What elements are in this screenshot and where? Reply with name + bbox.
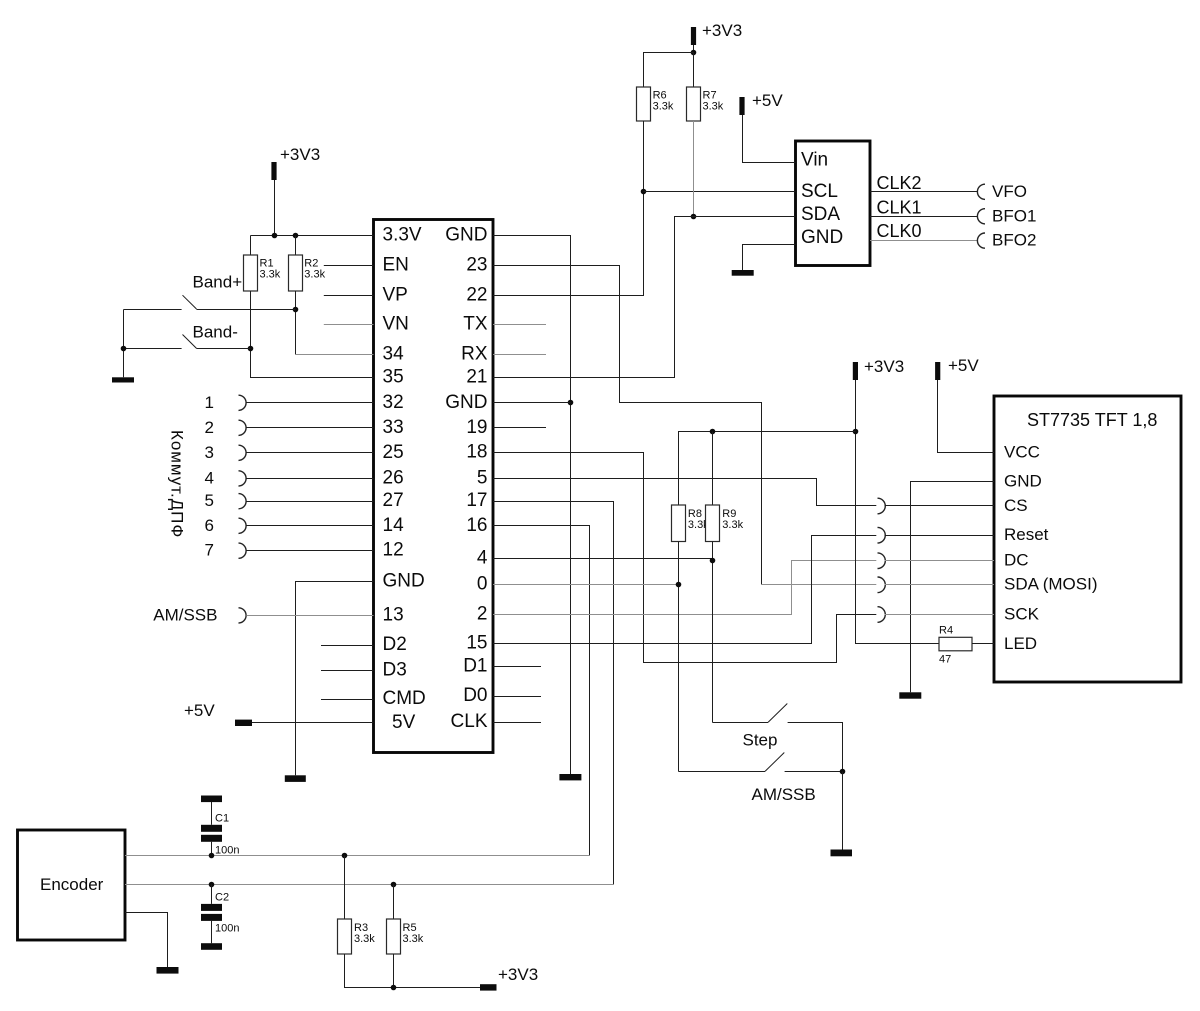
svg-text:+5V: +5V [752, 91, 783, 110]
switch AM/SSB left wire [679, 771, 766, 773]
TFT pin labels [1004, 443, 1098, 653]
svg-text:3.3k: 3.3k [304, 269, 325, 281]
wire R3 bottom to +3V3 [345, 954, 481, 988]
node junction R5/+3V3 line [391, 985, 397, 991]
svg-text:GND: GND [1004, 472, 1042, 491]
wire +3V3 drop to rail [274, 180, 276, 236]
wire TFT GND to ground [911, 482, 995, 693]
node junction common/Band- [121, 346, 127, 352]
ESP32 left pin labels [383, 224, 426, 733]
switch Band- left wire [124, 348, 182, 350]
svg-text:18: 18 [466, 442, 487, 463]
svg-text:VCC: VCC [1004, 443, 1040, 462]
svg-text:Step: Step [743, 731, 778, 750]
connector BFO1 socket [977, 209, 985, 224]
switch Band- blade [183, 335, 197, 349]
wire VN stub [324, 324, 374, 326]
wire R8 bottom to AM/SSB switch [678, 542, 680, 772]
svg-text:19: 19 [466, 417, 487, 438]
wire VP stub [324, 295, 374, 297]
wire +3V3 vertical to R4 [856, 380, 940, 644]
ESP32 right pin labels [445, 224, 488, 732]
svg-text:RX: RX [461, 344, 488, 365]
ground bar (Si5351) [732, 270, 754, 276]
node junction Step/AMSSB [840, 769, 846, 775]
wire R1 bottom to pin35 row [251, 291, 374, 378]
ground bar (C2 bottom) [201, 943, 222, 950]
wire EN stub [324, 265, 374, 267]
switch AM/SSB right wire [785, 771, 843, 773]
svg-text:13: 13 [383, 604, 404, 625]
svg-text:2: 2 [205, 418, 214, 437]
wire 19 stub [493, 427, 546, 429]
connector pin 6 socket [239, 518, 247, 533]
switch Step left wire [713, 722, 769, 724]
svg-text:BFO1: BFO1 [992, 206, 1036, 225]
svg-text:26: 26 [383, 467, 404, 488]
svg-text:D0: D0 [463, 685, 487, 706]
capacitor C1 top stem [211, 802, 213, 825]
svg-text:CLK1: CLK1 [877, 197, 922, 217]
power +5V (Si5351) bar [739, 97, 744, 115]
connector VFO socket [977, 184, 985, 199]
svg-text:LED: LED [1004, 634, 1037, 653]
svg-text:15: 15 [466, 633, 487, 654]
svg-text:GND: GND [445, 224, 487, 245]
Si5351 clock generator U2 body [796, 141, 871, 266]
svg-text:33: 33 [383, 417, 404, 438]
wire ESP right GND pin to rail [493, 402, 571, 404]
wire R1 top stub [250, 236, 252, 256]
svg-text:SCL: SCL [801, 181, 838, 202]
svg-text:SDA (MOSI): SDA (MOSI) [1004, 575, 1098, 594]
wire pin6 to ESP 14 [246, 525, 373, 527]
svg-text:17: 17 [466, 490, 487, 511]
svg-text:25: 25 [383, 442, 404, 463]
svg-text:32: 32 [383, 392, 404, 413]
power +3V3 (top left) bar [271, 162, 276, 180]
svg-text:BFO2: BFO2 [992, 231, 1036, 250]
wire R4 to TFT LED [972, 643, 994, 645]
svg-text:0: 0 [477, 573, 488, 594]
connector pin 7 socket [239, 543, 247, 558]
wire CLK0 to BFO2 [870, 240, 978, 242]
power +3V3 (pullups/TFT LED) bar [853, 362, 858, 380]
wire +5V to ESP 5V pin [252, 722, 374, 724]
node junction R9 top/rail [710, 429, 716, 435]
power +5V (ESP 5V pin) bar [235, 720, 252, 726]
wire R2 top stub [295, 236, 297, 256]
svg-text:D2: D2 [383, 634, 407, 655]
svg-text:3.3k: 3.3k [354, 933, 375, 945]
wire R7 bottom to SDA [693, 121, 695, 217]
wire CS socket to TFT [885, 505, 995, 507]
svg-text:SCK: SCK [1004, 604, 1040, 623]
resistor R8 [672, 505, 686, 542]
node junction R2 top/rail [293, 233, 299, 239]
capacitor C2 plate A [201, 904, 222, 911]
wire ESP right GND top to ground rail [493, 236, 571, 775]
ST7735 TFT display U3 body [994, 396, 1181, 682]
power +5V (TFT) bar [935, 362, 940, 380]
svg-text:DC: DC [1004, 551, 1029, 570]
connector pin 1 socket [239, 395, 247, 410]
wire D3 stub [321, 670, 374, 672]
wire DC socket to TFT [885, 560, 995, 562]
node junction R5/line2 [391, 882, 397, 888]
svg-text:35: 35 [383, 367, 404, 388]
ground bar (Band buttons) [112, 377, 134, 382]
Si5351 CLK output net labels [877, 173, 922, 241]
wire switches to ground [842, 772, 844, 851]
wire ESP pin16 to encoder line1 vertical [493, 526, 590, 856]
node junction Band+ / R2 line [293, 307, 299, 313]
wire TX stub [493, 324, 546, 326]
ground bar (encoder) [157, 967, 179, 974]
svg-text:Reset: Reset [1004, 525, 1049, 544]
wire R5 bottom stub [393, 954, 395, 988]
wire D2 stub [321, 645, 374, 647]
svg-text:+3V3: +3V3 [864, 357, 904, 376]
connector socket DC [878, 553, 886, 569]
ESP32 module U1 body [374, 220, 494, 753]
wire pin2 to ESP 33 [246, 427, 373, 429]
svg-text:GND: GND [445, 392, 487, 413]
wire ESP pin0 to R8 bottom node [493, 584, 679, 586]
svg-text:16: 16 [466, 515, 487, 536]
connector pin 5 socket [239, 494, 247, 509]
node junction GND rail/GND pin [568, 400, 574, 406]
connector socket CS [878, 498, 886, 514]
wire encoder pin2 to ESP17 line [125, 884, 614, 886]
wire R7 top stub [693, 53, 695, 88]
wire R8 top to +3V3 rail [679, 432, 856, 506]
connector pin 2 socket [239, 420, 247, 435]
node junction C2/line2 [209, 882, 215, 888]
resistor R5 [387, 919, 401, 954]
switch Band+ left wire [124, 309, 182, 311]
svg-text:CS: CS [1004, 496, 1028, 515]
svg-text:C2: C2 [215, 892, 229, 904]
connector AM/SSB socket [239, 608, 247, 623]
resistor R1 [244, 255, 258, 291]
ground bar (C1 top) [201, 796, 222, 803]
svg-text:12: 12 [383, 540, 404, 561]
svg-text:23: 23 [466, 254, 487, 275]
svg-text:4: 4 [205, 468, 214, 487]
svg-text:27: 27 [383, 490, 404, 511]
resistor R6 [637, 87, 651, 121]
power +3V3 (bottom) bar [480, 984, 497, 990]
wire R9 bottom to Step switch [712, 542, 714, 723]
wire SDA socket to TFT [885, 584, 995, 586]
svg-text:VN: VN [383, 314, 409, 335]
svg-text:CLK0: CLK0 [877, 221, 922, 241]
wire pin7 to ESP 12 [246, 550, 373, 552]
switch Band+ blade [183, 295, 197, 309]
svg-text:7: 7 [205, 541, 214, 560]
node junction SDA/R7 [691, 214, 697, 220]
svg-text:CMD: CMD [383, 688, 426, 709]
switch Band+ right wire [197, 309, 296, 311]
wire encoder pin3 to ground [125, 913, 168, 968]
svg-text:VFO: VFO [992, 182, 1027, 201]
wire Reset socket to TFT [885, 535, 995, 537]
wire pin3 to ESP 25 [246, 452, 373, 454]
svg-text:Band-: Band- [193, 323, 238, 342]
svg-text:AM/SSB: AM/SSB [752, 785, 816, 804]
svg-text:+3V3: +3V3 [702, 21, 742, 40]
svg-text:100n: 100n [215, 845, 239, 857]
connector socket SCK [878, 607, 886, 623]
wire ESP pin23 to TFT SDA MOSI [493, 266, 762, 585]
svg-text:GND: GND [801, 227, 843, 248]
connector pin 3 socket [239, 445, 247, 460]
capacitor C2 plate B [201, 914, 222, 921]
svg-text:R4: R4 [939, 625, 953, 637]
power +3V3 (R6/R7) bar [691, 27, 696, 45]
node junction C1/line1 [209, 853, 215, 859]
ground bar (ESP right) [559, 774, 581, 780]
svg-text:22: 22 [466, 284, 487, 305]
wire ESP pin15 to TFT Reset [493, 536, 876, 644]
capacitor C2 top stem [211, 885, 213, 904]
capacitor C1 plate B [201, 835, 222, 842]
svg-text:ST7735 TFT 1,8: ST7735 TFT 1,8 [1027, 410, 1157, 430]
wire pin1 to ESP 32 [246, 402, 373, 404]
svg-text:34: 34 [383, 344, 405, 365]
svg-text:100n: 100n [215, 923, 239, 935]
wire +5V to TFT VCC [938, 380, 995, 453]
resistor R7 [687, 87, 701, 121]
svg-text:AM/SSB: AM/SSB [153, 605, 217, 624]
wire CLK1 to BFO1 [870, 216, 978, 218]
svg-text:3.3k: 3.3k [403, 933, 424, 945]
wire ESP pin4 to R9 bottom node [493, 558, 713, 560]
svg-text:3.3k: 3.3k [703, 101, 724, 113]
svg-text:5V: 5V [392, 712, 416, 733]
wire encoder pin1 to ESP16 line [125, 855, 590, 857]
node junction R3/line1 [342, 853, 348, 859]
svg-text:GND: GND [383, 570, 425, 591]
svg-text:5: 5 [205, 491, 214, 510]
svg-text:21: 21 [466, 367, 487, 388]
svg-text:TX: TX [463, 314, 488, 335]
svg-text:EN: EN [383, 254, 409, 275]
switch Step blade [768, 704, 787, 723]
wire +5V to Vin [743, 115, 796, 163]
wire CLK2 to VFO [870, 191, 978, 193]
wire ESP pin18 to TFT SCK [493, 453, 876, 663]
svg-text:3.3V: 3.3V [383, 224, 422, 245]
svg-text:3.3k: 3.3k [653, 101, 674, 113]
svg-text:Encoder: Encoder [40, 875, 104, 894]
ground bar (ESP left GND) [285, 775, 306, 782]
wire R2 bottom to pin34 row [295, 291, 297, 355]
svg-text:47: 47 [939, 654, 951, 666]
svg-text:+3V3: +3V3 [498, 965, 538, 984]
switch Band- right wire [197, 348, 251, 350]
svg-text:Band+: Band+ [193, 273, 243, 292]
svg-text:3.3k: 3.3k [260, 269, 281, 281]
switch AM/SSB blade [765, 753, 784, 772]
switch Step right wire [788, 723, 843, 772]
wire D1 stub [493, 666, 541, 668]
connector pin 4 socket [239, 471, 247, 486]
svg-text:1: 1 [205, 393, 214, 412]
wire SDA to ESP pin21 [493, 217, 796, 378]
resistor R2 [289, 255, 303, 291]
wire D0 stub [493, 696, 541, 698]
svg-text:2: 2 [477, 604, 488, 625]
svg-text:14: 14 [383, 515, 405, 536]
node junction Band- / R1 line [248, 346, 254, 352]
resistor R4 [939, 637, 972, 651]
svg-text:CLK2: CLK2 [877, 173, 922, 193]
svg-text:D1: D1 [463, 655, 487, 676]
node junction +3V3/rail [272, 233, 278, 239]
capacitor C2 bottom stem [211, 921, 213, 943]
wire ESP pin17 to encoder line2 vertical [493, 502, 614, 885]
wire ESP left GND pin to ground [296, 582, 374, 776]
wire R6 bottom to ESP pin22 (SCL net) [493, 121, 644, 296]
svg-text:6: 6 [205, 516, 214, 535]
svg-text:+5V: +5V [948, 356, 979, 375]
capacitor C1 bottom stem [211, 842, 213, 856]
wire pin5 to ESP 27 [246, 501, 373, 503]
svg-text:4: 4 [477, 547, 488, 568]
node junction pin0/R8 [676, 582, 682, 588]
resistor R3 [338, 919, 352, 954]
node junction +3V3/R7 [691, 50, 697, 56]
wire rail to R6 top [644, 53, 694, 88]
connector socket Reset [878, 527, 886, 543]
svg-text:Vin: Vin [801, 150, 828, 171]
wire buttons common vertical [123, 310, 125, 378]
wire SCL to Si5351 [644, 191, 796, 193]
svg-text:Коммут.ДПФ: Коммут.ДПФ [168, 430, 187, 538]
connector BFO2 socket [977, 233, 985, 248]
wire ESP pin5 to TFT CS [493, 479, 876, 506]
resistor R9 [706, 505, 720, 542]
wire CLK stub [493, 722, 541, 724]
node junction pin4/R9 [710, 558, 716, 564]
connector socket SDA MOSI [878, 577, 886, 593]
Si5351 pin labels [801, 150, 843, 249]
wire RX stub [493, 354, 546, 356]
wire SCK socket to TFT [885, 614, 995, 616]
svg-text:+3V3: +3V3 [280, 145, 320, 164]
node junction SCL/R6 [641, 189, 647, 195]
Encoder body [18, 830, 126, 940]
svg-text:VP: VP [383, 284, 408, 305]
wire R5 top stub [393, 885, 395, 920]
svg-text:3.3k: 3.3k [722, 519, 743, 531]
svg-text:+5V: +5V [184, 701, 215, 720]
svg-text:CLK: CLK [451, 711, 488, 732]
wire R3 top stub [344, 856, 346, 920]
svg-text:5: 5 [477, 467, 488, 488]
capacitor C1 plate A [201, 825, 222, 832]
svg-text:C1: C1 [215, 813, 229, 825]
wire 3V3 rail to ESP 3.3V pin [251, 235, 374, 237]
svg-text:3: 3 [205, 443, 214, 462]
svg-text:SDA: SDA [801, 204, 840, 225]
ground bar (switches) [831, 850, 853, 857]
wire AM/SSB to ESP 13 [246, 615, 373, 617]
wire +3V3 down to R6/R7 rail [693, 45, 695, 53]
wire pin4 to ESP 26 [246, 478, 373, 480]
ground bar (TFT) [899, 692, 921, 698]
svg-text:D3: D3 [383, 659, 407, 680]
wire CMD stub [321, 699, 374, 701]
node junction pullup rail/+3V3 [853, 429, 859, 435]
wire R9 top stub [712, 432, 714, 506]
wire Si5351 GND to ground [743, 245, 796, 271]
wire ESP pin2 to TFT DC [493, 561, 876, 615]
